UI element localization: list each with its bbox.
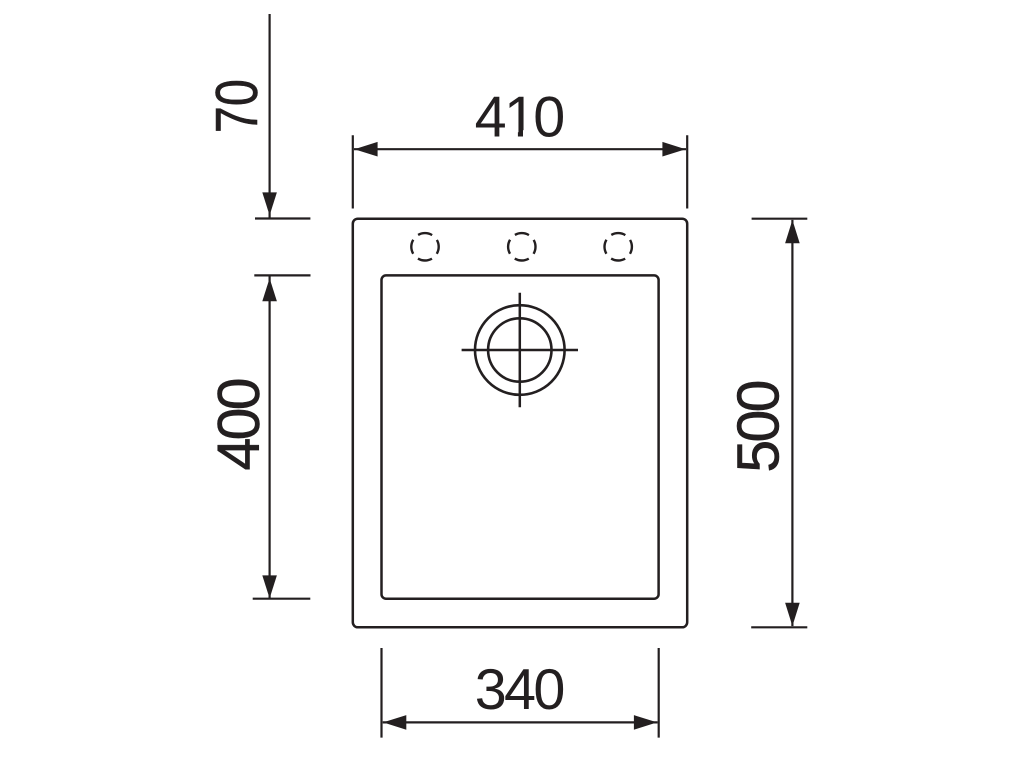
svg-text:410: 410 — [475, 86, 564, 150]
svg-text:340: 340 — [475, 658, 564, 722]
svg-text:70: 70 — [204, 79, 270, 133]
svg-text:500: 500 — [726, 381, 792, 472]
svg-text:400: 400 — [206, 379, 272, 470]
